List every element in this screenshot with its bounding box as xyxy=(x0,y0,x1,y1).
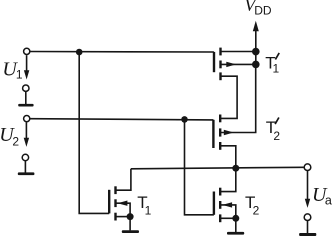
svg-text:DD: DD xyxy=(254,4,272,18)
transistor T1' channel dashes xyxy=(219,48,221,81)
ground (T1) xyxy=(122,217,139,233)
node B (U2 branch) xyxy=(181,116,188,123)
wire U2 terminal to T2' gate xyxy=(30,119,214,120)
ground (Ua) xyxy=(299,221,316,237)
input terminal U2 xyxy=(24,116,30,122)
T2 bulk stub with arrow down to source xyxy=(220,202,236,218)
label T1' xyxy=(265,53,279,75)
label U2 xyxy=(0,124,19,148)
svg-text:1: 1 xyxy=(16,68,23,82)
label T2' xyxy=(266,118,281,143)
voltage arrow Ua xyxy=(305,171,310,208)
wire node A down to T1 gate xyxy=(79,52,109,213)
ground (U1) xyxy=(18,91,33,106)
svg-text:1: 1 xyxy=(273,62,280,76)
T2' source stub down to output xyxy=(220,146,236,169)
T1' source stub down to T2' drain xyxy=(220,76,237,118)
node VDD-drain junction xyxy=(252,48,260,56)
transistor T2 gate plate xyxy=(213,192,215,215)
T1' bulk stub with arrow xyxy=(221,62,256,67)
wire output row xyxy=(131,167,304,169)
node A (U1 branch) xyxy=(76,49,83,56)
T2 drain stub up to output node xyxy=(220,168,236,191)
svg-text:2: 2 xyxy=(253,204,260,218)
ground (T2) xyxy=(227,218,244,234)
svg-text:a: a xyxy=(325,194,332,208)
svg-text:2: 2 xyxy=(12,135,19,149)
transistor T1 channel dashes xyxy=(114,186,116,220)
T1 source stub xyxy=(116,216,131,218)
wire U1 terminal to T1' gate xyxy=(30,51,214,54)
ground (U2) xyxy=(18,161,35,175)
node VDD-bulk junction xyxy=(252,61,260,69)
transistor T2 channel dashes xyxy=(219,188,221,223)
ground terminal circle below Ua xyxy=(304,214,311,221)
label Ua xyxy=(312,184,332,208)
wire VDD rail xyxy=(255,48,257,64)
voltage arrow U1 xyxy=(24,55,29,79)
transistor T1 gate plate xyxy=(108,190,110,214)
label T2 xyxy=(245,193,260,217)
T1 drain stub up to output row xyxy=(116,169,131,190)
voltage arrow U2 xyxy=(24,122,29,146)
transistor T2' gate plate xyxy=(212,120,214,148)
T1' drain stub to VDD node xyxy=(221,51,256,53)
svg-text:2: 2 xyxy=(273,129,280,143)
label T1 xyxy=(137,193,151,217)
ground terminal circle below U1 xyxy=(23,85,29,91)
svg-text:1: 1 xyxy=(145,204,152,218)
wire node B down to T2 gate xyxy=(185,119,214,214)
node T1 source junction xyxy=(127,213,134,220)
T2' bulk stub with arrow, up to VDD rail xyxy=(220,64,256,135)
node T2 source junction xyxy=(232,215,239,222)
VDD supply arrow xyxy=(253,21,259,48)
ground terminal circle below U2 xyxy=(22,154,28,160)
T1 bulk stub with arrow down to source xyxy=(116,201,131,217)
transistor T2' channel dashes xyxy=(219,115,221,150)
input terminal U1 xyxy=(24,48,30,54)
T2 source stub xyxy=(220,217,236,219)
node output junction xyxy=(232,165,239,172)
output terminal Ua xyxy=(304,164,311,171)
transistor T1' gate plate xyxy=(213,52,215,72)
label U1 xyxy=(2,59,23,82)
label VDD xyxy=(244,0,271,17)
